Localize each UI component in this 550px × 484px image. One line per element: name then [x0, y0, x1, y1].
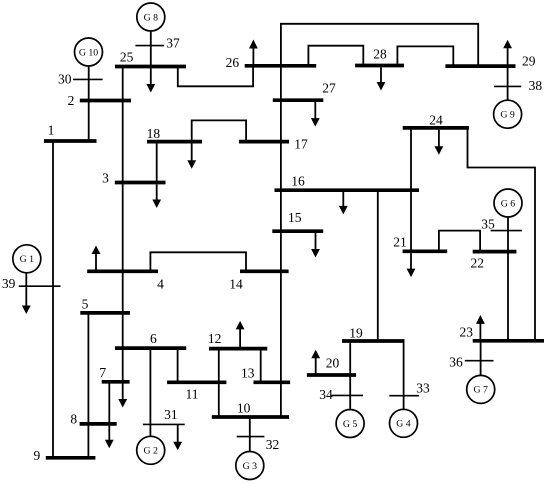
wire 25-26 link: [178, 66, 253, 87]
svg-text:2: 2: [68, 93, 75, 108]
bus 18: [147, 140, 202, 144]
bus 29: [445, 64, 515, 68]
bus 23: [473, 339, 544, 343]
svg-text:10: 10: [237, 400, 251, 415]
svg-text:39: 39: [2, 276, 16, 291]
wire 18-17 link: [192, 120, 246, 141]
wire 6-11 vertical: [177, 348, 179, 382]
bus 14: [240, 269, 289, 273]
bus 6: [115, 346, 186, 350]
bus 4: [87, 269, 158, 273]
wire 26-27-17-16-15-14-13-10 vertical: [280, 66, 282, 418]
svg-text:11: 11: [186, 386, 199, 401]
svg-text:22: 22: [471, 256, 485, 271]
load arrow bus 18: [187, 144, 196, 169]
svg-text:4: 4: [157, 277, 164, 292]
svg-text:38: 38: [529, 78, 543, 93]
load arrow bus 28: [377, 67, 386, 90]
svg-text:19: 19: [349, 325, 363, 340]
wire 25-2-3-4-5-6-7 vertical: [122, 67, 124, 382]
wire 16-19 vertical: [377, 190, 379, 341]
load arrow bus 20 up: [311, 350, 320, 375]
svg-text:1: 1: [48, 122, 55, 137]
wire G8-37-25 vertical: [150, 31, 152, 67]
wire 26-29 top link: [281, 24, 478, 66]
bus 11: [167, 380, 226, 384]
svg-text:G 6: G 6: [501, 198, 516, 209]
bus 7: [102, 380, 130, 384]
wire 5-8-9 vertical: [87, 313, 89, 458]
load arrow bus 4 up: [92, 246, 101, 272]
svg-text:24: 24: [429, 112, 443, 127]
wire 29-38-G9 vertical: [507, 66, 509, 101]
svg-text:G 8: G 8: [144, 12, 159, 23]
svg-text:27: 27: [322, 80, 336, 95]
svg-text:6: 6: [150, 331, 157, 346]
svg-text:7: 7: [99, 365, 106, 380]
bus 16: [275, 188, 420, 192]
bus 1: [44, 139, 97, 143]
load arrow bus 15: [311, 233, 320, 258]
wire 12-11-10 vertical: [218, 349, 220, 417]
bus 21: [403, 249, 448, 253]
svg-text:14: 14: [229, 277, 243, 292]
bus 26: [245, 64, 317, 68]
svg-text:18: 18: [147, 126, 161, 141]
transformer tick 38: [494, 85, 521, 87]
svg-text:G 1: G 1: [20, 254, 35, 265]
svg-text:G 4: G 4: [396, 419, 411, 430]
svg-text:15: 15: [288, 210, 302, 225]
svg-text:9: 9: [34, 448, 41, 463]
load arrow bus 3: [152, 184, 161, 208]
load arrow bus 26 up: [249, 40, 258, 66]
load arrow bus 39: [22, 286, 31, 314]
bus 22: [473, 250, 517, 254]
generator G2: [137, 436, 165, 464]
load arrow bus 29 up: [503, 40, 512, 66]
wire 28-29 link: [397, 46, 453, 66]
transformer tick 35: [491, 230, 522, 232]
svg-text:G 2: G 2: [143, 446, 158, 457]
bus 5: [80, 311, 130, 315]
transformer tick 32: [237, 436, 265, 438]
svg-text:29: 29: [522, 53, 536, 68]
svg-text:30: 30: [58, 72, 72, 87]
wire 1-39-9 vertical: [52, 141, 54, 458]
bus 19: [342, 339, 405, 343]
svg-text:35: 35: [481, 217, 495, 232]
load arrow bus 27: [311, 102, 320, 127]
generator G1: [13, 245, 41, 273]
wire 12-13 vertical: [260, 349, 262, 383]
wire 3-18 vertical: [156, 142, 158, 183]
wire G6-35-22-23 vertical: [507, 217, 509, 341]
svg-text:G 7: G 7: [473, 385, 488, 396]
load arrow bus 16: [339, 192, 348, 214]
bus 17: [239, 140, 289, 144]
svg-text:13: 13: [241, 365, 255, 380]
svg-text:17: 17: [294, 136, 308, 151]
bus 24: [403, 126, 469, 130]
svg-text:16: 16: [291, 173, 305, 188]
bus 8: [80, 422, 117, 426]
bus 9: [46, 456, 96, 460]
svg-text:34: 34: [319, 387, 333, 402]
load arrow bus 8: [105, 424, 114, 448]
wire 4-14 link: [150, 252, 246, 271]
load arrow bus 7: [118, 382, 127, 408]
generator G5: [336, 410, 364, 438]
svg-text:25: 25: [120, 49, 134, 64]
load arrow bus 31: [173, 424, 182, 450]
svg-text:G 5: G 5: [343, 419, 358, 430]
generator G3: [236, 452, 264, 480]
wire 24-16-21 vertical: [410, 128, 412, 251]
svg-text:36: 36: [449, 354, 463, 369]
wire 19-33-G4 vertical: [403, 341, 405, 410]
svg-text:21: 21: [393, 234, 407, 249]
bus 10: [212, 415, 289, 419]
generator G7: [467, 375, 495, 403]
svg-text:32: 32: [266, 437, 280, 452]
wire 7-8 vertical: [108, 382, 110, 424]
bus 25: [115, 65, 186, 69]
wire 10-32-G3 vertical: [249, 417, 251, 452]
generator G9: [494, 100, 522, 128]
transformer tick 37: [135, 45, 164, 47]
wire 23-36-G7 vertical: [480, 341, 482, 376]
bus 27: [273, 98, 324, 102]
bus 13: [254, 380, 291, 384]
transformer tick 36: [465, 360, 494, 362]
transformer tick 34: [332, 394, 364, 396]
bus 3: [115, 181, 166, 185]
wire 19-20-34-G5 vertical: [349, 341, 351, 410]
generator G4: [390, 409, 418, 437]
bus 15: [272, 229, 323, 233]
wire G10-30-2-1 vertical: [88, 66, 90, 142]
svg-text:5: 5: [82, 296, 89, 311]
wire G1-39 vertical: [25, 273, 27, 286]
svg-text:12: 12: [208, 331, 222, 346]
svg-text:G 9: G 9: [500, 110, 515, 121]
load arrow bus 23 up: [476, 315, 485, 341]
svg-text:37: 37: [166, 35, 180, 50]
svg-text:20: 20: [326, 355, 340, 370]
svg-text:3: 3: [102, 170, 109, 185]
svg-text:26: 26: [226, 55, 240, 70]
svg-text:G 10: G 10: [79, 47, 98, 58]
load arrow bus 25: [146, 68, 155, 92]
load arrow bus 24: [435, 130, 444, 155]
svg-text:31: 31: [164, 407, 178, 422]
bus 12: [209, 347, 267, 351]
wire 24-23 link: [468, 128, 536, 341]
generator G10: [75, 38, 103, 66]
generator G6: [494, 189, 522, 217]
svg-text:G 3: G 3: [243, 461, 258, 472]
load arrow bus 21: [407, 253, 416, 277]
svg-text:28: 28: [373, 46, 387, 61]
transformer tick 31: [143, 423, 185, 425]
transformer tick 33: [389, 395, 419, 397]
generator G8: [137, 3, 165, 31]
load arrow bus 12 up: [236, 321, 245, 349]
svg-text:33: 33: [416, 380, 430, 395]
svg-text:23: 23: [460, 324, 474, 339]
wire 6-31-G2 vertical: [149, 348, 151, 437]
wire 26-28 link: [308, 46, 363, 66]
bus 20: [307, 373, 356, 377]
transformer tick 30: [73, 78, 103, 80]
wire 21-22 link: [439, 231, 480, 252]
svg-text:8: 8: [70, 411, 77, 426]
bus 28: [355, 64, 404, 68]
bus 2: [80, 99, 131, 103]
bus 39 bar: [19, 285, 61, 287]
